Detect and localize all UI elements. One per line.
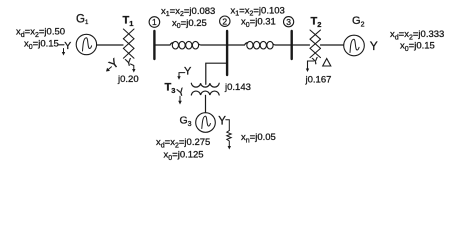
transformer T3 label bbox=[165, 81, 176, 95]
svg-text:j0.143: j0.143 bbox=[224, 82, 251, 93]
svg-text:xn=j0.05: xn=j0.05 bbox=[241, 132, 276, 144]
T3 reactance label j0.143 bbox=[224, 82, 251, 93]
wire line coil to bus2 bbox=[199, 44, 226, 45]
bus 3 bbox=[291, 31, 293, 59]
G2 wye symbol bbox=[370, 39, 378, 53]
wire G1 to T1 bbox=[97, 44, 123, 46]
svg-text:T3: T3 bbox=[165, 81, 176, 95]
svg-text:Y: Y bbox=[184, 66, 192, 78]
T2 reactance label j0.167 bbox=[305, 75, 332, 86]
T2 delta symbol bbox=[323, 59, 331, 67]
generator G2 impedance label x1 bbox=[390, 29, 444, 41]
wire bus3 to T2 bbox=[293, 44, 310, 46]
svg-text:x0=j0.15: x0=j0.15 bbox=[24, 39, 59, 51]
svg-text:G3: G3 bbox=[180, 115, 192, 129]
svg-text:xd=x2=j0.50: xd=x2=j0.50 bbox=[16, 27, 65, 39]
svg-text:j0.20: j0.20 bbox=[117, 74, 139, 85]
svg-text:Y: Y bbox=[370, 39, 378, 53]
transformer T1 label bbox=[123, 14, 134, 28]
line 2-3 impedance label x0 bbox=[241, 17, 276, 29]
transformer T2 bbox=[310, 30, 321, 58]
svg-text:x0=j0.15: x0=j0.15 bbox=[400, 41, 435, 53]
T1 secondary grounded wye symbol bbox=[124, 57, 135, 73]
G1 grounded wye symbol bbox=[59, 40, 72, 56]
wire T2 to G2 bbox=[321, 44, 344, 46]
svg-text:1: 1 bbox=[152, 17, 157, 27]
generator G2 impedance label x0 bbox=[400, 41, 435, 53]
svg-text:G2: G2 bbox=[352, 15, 365, 29]
svg-text:x0=j0.31: x0=j0.31 bbox=[241, 17, 276, 29]
T1 primary grounded wye symbol bbox=[106, 55, 122, 72]
G3 neutral grounding reactor xn bbox=[227, 131, 231, 150]
node 1 bbox=[149, 17, 160, 28]
G3 wye symbol bbox=[218, 116, 229, 131]
svg-text:Y: Y bbox=[218, 116, 226, 128]
node 2 bbox=[220, 16, 230, 26]
svg-text:x0=j0.25: x0=j0.25 bbox=[172, 18, 207, 30]
line 2-3 inductor bbox=[247, 41, 273, 49]
line 1-2 impedance label x1 bbox=[161, 6, 215, 18]
transformer T2 label bbox=[311, 15, 322, 29]
transformer T3 bbox=[191, 83, 219, 95]
svg-text:Y: Y bbox=[64, 40, 71, 52]
T3 secondary grounded wye symbol bbox=[176, 86, 186, 105]
svg-text:T1: T1 bbox=[123, 14, 134, 28]
svg-text:Y: Y bbox=[124, 57, 133, 69]
generator G1 impedance label x0 bbox=[24, 39, 59, 51]
wire line coil to bus3 bbox=[273, 44, 290, 45]
generator G3 bbox=[196, 113, 216, 133]
generator G1 label bbox=[76, 13, 89, 26]
generator G2 label bbox=[352, 15, 365, 29]
bus 2 bbox=[226, 31, 228, 75]
svg-text:T2: T2 bbox=[311, 15, 322, 29]
wire bus2 to line coil bbox=[228, 43, 248, 45]
generator G3 impedance label x1 bbox=[156, 137, 210, 149]
svg-text:2: 2 bbox=[222, 16, 227, 26]
node 3 bbox=[284, 17, 294, 27]
generator G3 impedance label x0 bbox=[164, 150, 204, 162]
T3 primary grounded wye symbol bbox=[177, 66, 192, 80]
transformer T1 bbox=[123, 29, 134, 58]
line 1-2 impedance label x0 bbox=[172, 18, 207, 30]
wire bus2 down to T3 bbox=[206, 63, 227, 84]
svg-text:x1=x2=j0.083: x1=x2=j0.083 bbox=[161, 6, 215, 18]
svg-text:3: 3 bbox=[286, 17, 291, 27]
svg-text:G1: G1 bbox=[76, 13, 89, 26]
line 2-3 impedance label x1 bbox=[231, 5, 285, 17]
svg-text:Y: Y bbox=[311, 56, 320, 68]
generator G2 bbox=[344, 35, 365, 56]
generator G3 label bbox=[180, 115, 192, 129]
svg-text:j0.167: j0.167 bbox=[305, 75, 332, 86]
svg-text:x0=j0.125: x0=j0.125 bbox=[164, 150, 204, 162]
svg-text:xd=x2=j0.275: xd=x2=j0.275 bbox=[156, 137, 210, 149]
wire T3 to G3 bbox=[205, 95, 207, 112]
bus 1 bbox=[153, 31, 155, 59]
line 1-2 inductor bbox=[172, 41, 198, 49]
generator G1 bbox=[76, 34, 96, 54]
wire bus1 to line coil bbox=[156, 43, 174, 45]
generator G1 impedance label x1 bbox=[16, 27, 65, 39]
T1 reactance label j0.20 bbox=[117, 74, 139, 85]
svg-text:Y: Y bbox=[176, 86, 186, 100]
T2 grounded wye symbol bbox=[306, 56, 320, 72]
grounding reactor label xn bbox=[241, 132, 276, 144]
